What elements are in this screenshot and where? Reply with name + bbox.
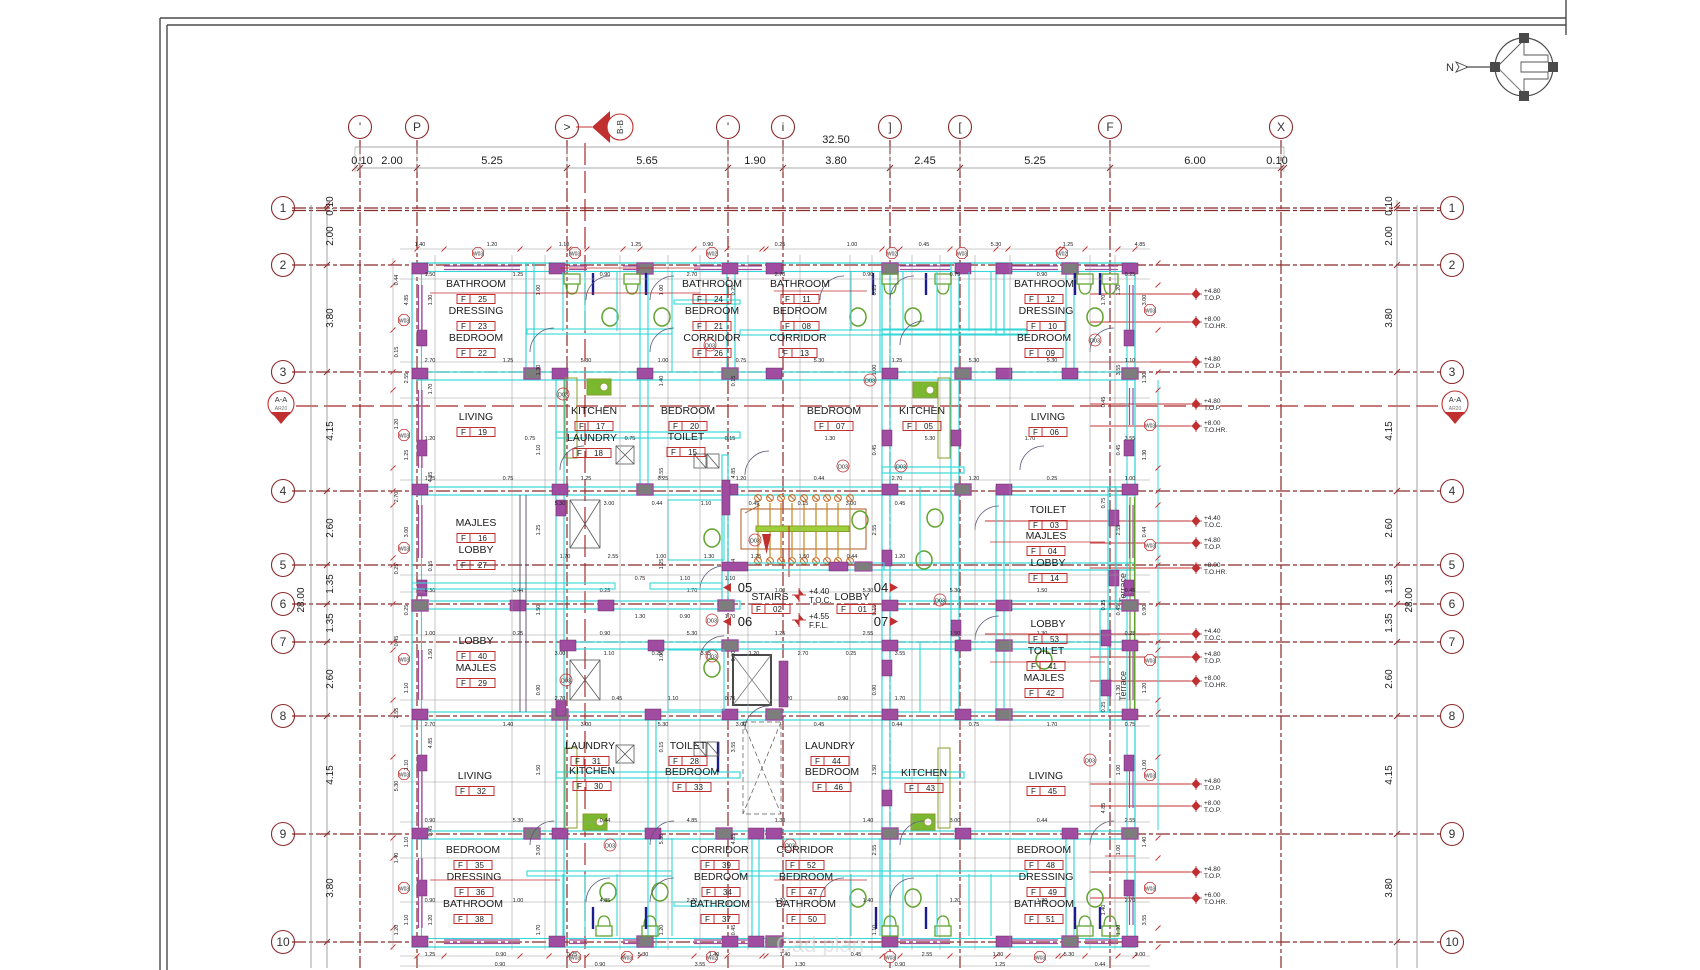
svg-text:0.90: 0.90 [600, 631, 611, 637]
svg-text:T.O.HR.: T.O.HR. [1204, 899, 1227, 906]
svg-text:1.30: 1.30 [536, 365, 542, 376]
svg-text:W03: W03 [399, 658, 410, 664]
svg-text:F: F [461, 349, 466, 358]
svg-text:1.25: 1.25 [581, 476, 592, 482]
svg-text:3: 3 [1449, 365, 1456, 379]
svg-text:0.75: 0.75 [1101, 498, 1107, 509]
svg-text:28.00: 28.00 [296, 587, 307, 612]
svg-text:2.70: 2.70 [1125, 898, 1136, 904]
svg-text:0.25: 0.25 [1047, 476, 1058, 482]
svg-text:F: F [1106, 120, 1113, 134]
svg-text:1.70: 1.70 [560, 554, 571, 560]
svg-text:T.O.P.: T.O.P. [1204, 295, 1221, 302]
svg-text:1.40: 1.40 [1101, 905, 1107, 916]
terrace right [1130, 497, 1135, 712]
svg-text:51: 51 [1046, 915, 1055, 924]
svg-text:28.00: 28.00 [1404, 587, 1415, 612]
svg-text:45: 45 [1048, 787, 1057, 796]
svg-text:+4.55: +4.55 [809, 612, 830, 621]
svg-text:F: F [461, 561, 466, 570]
svg-text:2: 2 [1449, 258, 1456, 272]
svg-text:4.85: 4.85 [1135, 242, 1146, 248]
svg-text:1.50: 1.50 [425, 272, 436, 278]
svg-text:]: ] [888, 120, 891, 134]
svg-text:2.55: 2.55 [659, 468, 665, 479]
svg-text:1.00: 1.00 [536, 285, 542, 296]
svg-text:06: 06 [738, 614, 752, 629]
svg-text:D03: D03 [865, 379, 875, 385]
svg-text:0.45: 0.45 [814, 722, 825, 728]
svg-text:22: 22 [478, 349, 487, 358]
svg-text:0.90: 0.90 [536, 685, 542, 696]
svg-text:2.55: 2.55 [872, 845, 878, 856]
svg-text:5.30: 5.30 [659, 834, 665, 845]
svg-text:1.40: 1.40 [709, 952, 720, 958]
svg-text:T.O.P.: T.O.P. [1204, 544, 1221, 551]
svg-text:2.70: 2.70 [892, 476, 903, 482]
svg-text:LOBBY: LOBBY [1030, 618, 1065, 630]
svg-text:D03: D03 [558, 393, 568, 399]
svg-text:34: 34 [723, 888, 732, 897]
svg-text:5.30: 5.30 [1064, 952, 1075, 958]
green fixtures: wall-hung WCs (top clusters) [564, 274, 580, 294]
svg-text:F: F [461, 428, 466, 437]
svg-text:1.40: 1.40 [659, 376, 665, 387]
svg-text:2.60: 2.60 [1384, 518, 1395, 538]
svg-text:2.55: 2.55 [922, 952, 933, 958]
svg-text:W03: W03 [399, 773, 410, 779]
svg-text:2.55: 2.55 [863, 631, 874, 637]
svg-text:F: F [815, 757, 820, 766]
svg-text:0.25: 0.25 [1101, 702, 1107, 713]
svg-text:AR20: AR20 [275, 406, 288, 412]
svg-text:T.O.HR.: T.O.HR. [1204, 427, 1227, 434]
svg-text:i: i [782, 120, 785, 134]
svg-text:48: 48 [1046, 861, 1055, 870]
svg-text:1.70: 1.70 [1047, 722, 1058, 728]
left dimension column [326, 200, 328, 968]
svg-text:3.00: 3.00 [581, 722, 592, 728]
svg-text:N: N [1446, 62, 1454, 74]
svg-text:+8.00: +8.00 [1204, 562, 1221, 569]
svg-text:5.30: 5.30 [969, 358, 980, 364]
svg-text:2.55: 2.55 [394, 708, 400, 719]
svg-text:D03: D03 [707, 619, 717, 625]
svg-text:7: 7 [280, 635, 287, 649]
svg-text:2.60: 2.60 [325, 518, 336, 538]
svg-text:15: 15 [688, 448, 697, 457]
svg-text:4.85: 4.85 [600, 898, 611, 904]
svg-text:0.90: 0.90 [595, 962, 606, 968]
svg-text:1.35: 1.35 [1384, 574, 1395, 594]
svg-text:0.75: 0.75 [736, 358, 747, 364]
svg-text:1.50: 1.50 [950, 631, 961, 637]
svg-text:F: F [790, 861, 795, 870]
svg-text:F: F [1031, 322, 1036, 331]
svg-text:BATHROOM: BATHROOM [690, 898, 750, 910]
svg-text:W03: W03 [399, 319, 410, 325]
svg-text:BEDROOM: BEDROOM [779, 871, 833, 883]
svg-text:0.90: 0.90 [425, 898, 436, 904]
svg-text:+8.00: +8.00 [1204, 675, 1221, 682]
svg-text:0.90: 0.90 [600, 272, 611, 278]
svg-text:F: F [705, 915, 710, 924]
svg-text:1.25: 1.25 [659, 559, 665, 570]
columns magenta [412, 263, 428, 274]
svg-text:F: F [697, 322, 702, 331]
central duct dashed X [743, 722, 781, 814]
svg-text:1.50: 1.50 [1037, 588, 1048, 594]
svg-text:3.00: 3.00 [536, 845, 542, 856]
wet area partitions cyan [527, 272, 1027, 936]
svg-text:1.40: 1.40 [503, 722, 514, 728]
svg-text:03: 03 [1050, 521, 1059, 530]
svg-text:F: F [461, 295, 466, 304]
svg-text:2.00: 2.00 [381, 155, 402, 167]
svg-text:2.00: 2.00 [325, 226, 336, 246]
svg-text:5.30: 5.30 [638, 952, 649, 958]
svg-text:1.30: 1.30 [1116, 925, 1122, 936]
svg-text:9: 9 [280, 827, 287, 841]
svg-text:3.80: 3.80 [325, 308, 336, 328]
svg-text:MAJLES: MAJLES [1026, 530, 1067, 542]
svg-text:1.50: 1.50 [536, 605, 542, 616]
svg-text:1.20: 1.20 [425, 436, 436, 442]
svg-text:0.25: 0.25 [775, 242, 786, 248]
svg-text:8: 8 [280, 709, 287, 723]
svg-text:6: 6 [1449, 597, 1456, 611]
svg-text:12: 12 [1046, 295, 1055, 304]
svg-text:1.10: 1.10 [680, 576, 691, 582]
svg-text:X: X [1277, 120, 1285, 134]
svg-text:F: F [791, 915, 796, 924]
svg-text:1.00: 1.00 [513, 898, 524, 904]
svg-text:2.60: 2.60 [1384, 669, 1395, 689]
svg-text:52: 52 [807, 861, 816, 870]
svg-text:+8.00: +8.00 [1204, 800, 1221, 807]
svg-text:3.55: 3.55 [1125, 436, 1136, 442]
corridor wall segment [722, 563, 884, 570]
svg-text:39: 39 [722, 861, 731, 870]
svg-text:W03: W03 [957, 252, 968, 258]
svg-text:0.45: 0.45 [612, 696, 623, 702]
svg-text:DRESSING: DRESSING [1019, 871, 1074, 883]
svg-text:1.30: 1.30 [1142, 373, 1148, 384]
svg-text:F: F [671, 448, 676, 457]
svg-text:49: 49 [1048, 888, 1057, 897]
svg-text:D03: D03 [707, 655, 717, 661]
svg-text:+8.00: +8.00 [1204, 316, 1221, 323]
svg-text:0.90: 0.90 [863, 272, 874, 278]
svg-text:1.10: 1.10 [668, 696, 679, 702]
svg-text:DRESSING: DRESSING [447, 871, 502, 883]
svg-text:0.25: 0.25 [567, 952, 578, 958]
svg-text:0.10: 0.10 [1266, 155, 1287, 167]
svg-text:0.45: 0.45 [749, 501, 760, 507]
svg-text:F: F [791, 888, 796, 897]
svg-text:2.55: 2.55 [1125, 818, 1136, 824]
svg-text:0.90: 0.90 [731, 651, 737, 662]
svg-text:1.25: 1.25 [513, 272, 524, 278]
svg-text:0.25: 0.25 [513, 631, 524, 637]
svg-text:1.25: 1.25 [425, 952, 436, 958]
svg-text:F: F [458, 861, 463, 870]
svg-text:0.15: 0.15 [798, 501, 809, 507]
svg-text:0.15: 0.15 [731, 376, 737, 387]
svg-text:1.30: 1.30 [1116, 685, 1122, 696]
svg-text:0.45: 0.45 [1125, 588, 1136, 594]
svg-text:4.85: 4.85 [428, 738, 434, 749]
svg-text:1.00: 1.00 [1125, 476, 1136, 482]
svg-text:0.90: 0.90 [838, 696, 849, 702]
svg-text:+4.80: +4.80 [1204, 537, 1221, 544]
svg-text:F: F [1029, 915, 1034, 924]
svg-text:3.00: 3.00 [1142, 295, 1148, 306]
svg-text:5.30: 5.30 [513, 818, 524, 824]
svg-text:3.00: 3.00 [1135, 952, 1146, 958]
svg-text:BATHROOM: BATHROOM [443, 898, 503, 910]
svg-text:5.30: 5.30 [925, 436, 936, 442]
svg-text:1.70: 1.70 [428, 384, 434, 395]
svg-text:3.00: 3.00 [736, 722, 747, 728]
svg-text:F.F.L.: F.F.L. [809, 621, 828, 630]
svg-text:1.20: 1.20 [895, 554, 906, 560]
svg-text:0.25: 0.25 [846, 651, 857, 657]
svg-text:F: F [1031, 888, 1036, 897]
svg-text:1.25: 1.25 [536, 525, 542, 536]
svg-text:CORRIDOR: CORRIDOR [691, 844, 749, 856]
svg-text:+4.80: +4.80 [1204, 778, 1221, 785]
svg-text:1.40: 1.40 [863, 898, 874, 904]
svg-text:BEDROOM: BEDROOM [446, 844, 500, 856]
svg-text:BEDROOM: BEDROOM [661, 405, 715, 417]
svg-text:1.00: 1.00 [1116, 765, 1122, 776]
svg-text:5.30: 5.30 [1047, 358, 1058, 364]
svg-text:BEDROOM: BEDROOM [805, 766, 859, 778]
svg-text:': ' [359, 120, 361, 134]
svg-text:Cad plan: Cad plan [776, 932, 864, 957]
building outer walls [412, 263, 1135, 947]
svg-text:24: 24 [714, 295, 723, 304]
svg-text:0.90: 0.90 [1142, 605, 1148, 616]
svg-text:F: F [1033, 428, 1038, 437]
door arcs [530, 276, 1114, 902]
svg-text:3.00: 3.00 [404, 527, 410, 538]
svg-text:30: 30 [594, 782, 603, 791]
svg-text:4.85: 4.85 [428, 472, 434, 483]
svg-text:0.44: 0.44 [814, 476, 825, 482]
svg-text:10: 10 [1048, 322, 1057, 331]
svg-text:BATHROOM: BATHROOM [446, 278, 506, 290]
windows side walls (magenta strips) [419, 285, 1134, 928]
svg-text:05: 05 [738, 580, 752, 595]
svg-text:T.O.P.: T.O.P. [1204, 405, 1221, 412]
svg-text:0.44: 0.44 [892, 722, 903, 728]
svg-text:BATHROOM: BATHROOM [1014, 898, 1074, 910]
svg-text:W03: W03 [1145, 309, 1156, 315]
svg-text:BEDROOM: BEDROOM [449, 332, 503, 344]
svg-text:3.55: 3.55 [731, 742, 737, 753]
svg-text:1.40: 1.40 [1142, 837, 1148, 848]
svg-text:3.80: 3.80 [1384, 308, 1395, 328]
north arrow [1456, 38, 1553, 96]
right dimension column [1396, 200, 1398, 968]
svg-text:F: F [697, 295, 702, 304]
svg-text:F: F [577, 782, 582, 791]
svg-text:LOBBY: LOBBY [834, 591, 869, 603]
svg-text:4.85: 4.85 [1101, 803, 1107, 814]
svg-text:F: F [1029, 295, 1034, 304]
svg-text:T.O.P.: T.O.P. [1204, 363, 1221, 370]
svg-text:TOILET: TOILET [1030, 504, 1067, 516]
stairs [741, 509, 866, 549]
svg-text:F: F [817, 783, 822, 792]
svg-text:0.75: 0.75 [525, 436, 536, 442]
svg-text:D03: D03 [605, 844, 615, 850]
svg-text:1.10: 1.10 [1125, 358, 1136, 364]
svg-text:W02: W02 [707, 252, 718, 258]
interior dim chains [400, 249, 1150, 966]
svg-text:1.50: 1.50 [536, 765, 542, 776]
svg-text:BATHROOM: BATHROOM [682, 278, 742, 290]
svg-text:1.35: 1.35 [325, 613, 336, 633]
svg-text:BEDROOM: BEDROOM [1017, 332, 1071, 344]
svg-text:1.30: 1.30 [428, 295, 434, 306]
top dimension lines [355, 146, 1284, 148]
svg-text:1.20: 1.20 [736, 476, 747, 482]
svg-text:4.85: 4.85 [731, 834, 737, 845]
svg-text:0.45: 0.45 [1101, 397, 1107, 408]
svg-text:0.45: 0.45 [895, 501, 906, 507]
kitchen counters green [583, 379, 937, 830]
svg-text:46: 46 [834, 783, 843, 792]
svg-text:LAUNDRY: LAUNDRY [805, 740, 855, 752]
svg-text:14: 14 [1050, 574, 1059, 583]
svg-text:F: F [756, 605, 761, 614]
svg-text:1.10: 1.10 [404, 837, 410, 848]
svg-text:1.20: 1.20 [1142, 683, 1148, 694]
svg-text:LOBBY: LOBBY [458, 544, 493, 556]
svg-text:40: 40 [478, 652, 487, 661]
svg-text:0.90: 0.90 [495, 962, 506, 968]
svg-text:1.20: 1.20 [394, 925, 400, 936]
svg-text:1: 1 [280, 201, 287, 215]
svg-text:TOILET: TOILET [1028, 645, 1065, 657]
svg-text:LIVING: LIVING [458, 770, 492, 782]
svg-text:F: F [785, 295, 790, 304]
svg-text:4.15: 4.15 [325, 421, 336, 441]
svg-text:F: F [785, 322, 790, 331]
svg-text:21: 21 [714, 322, 723, 331]
svg-text:05: 05 [924, 422, 933, 431]
svg-text:+4.80: +4.80 [1204, 398, 1221, 405]
svg-text:53: 53 [1050, 635, 1059, 644]
svg-text:0.75: 0.75 [625, 436, 636, 442]
svg-text:01: 01 [858, 605, 867, 614]
svg-text:1.25: 1.25 [503, 358, 514, 364]
svg-text:08: 08 [802, 322, 811, 331]
svg-text:1.30: 1.30 [775, 818, 786, 824]
svg-text:W03: W03 [1145, 659, 1156, 665]
svg-text:F: F [577, 449, 582, 458]
svg-text:>: > [563, 120, 570, 134]
svg-text:1.10: 1.10 [559, 242, 570, 248]
svg-text:1.40: 1.40 [394, 853, 400, 864]
svg-text:09: 09 [1046, 349, 1055, 358]
svg-text:41: 41 [1048, 662, 1057, 671]
svg-text:BATHROOM: BATHROOM [1014, 278, 1074, 290]
svg-text:F: F [1031, 787, 1036, 796]
svg-text:3.00: 3.00 [555, 651, 566, 657]
svg-text:F: F [458, 915, 463, 924]
internal walls cyan [417, 263, 1135, 947]
svg-text:2.55: 2.55 [404, 373, 410, 384]
svg-text:0.75: 0.75 [635, 576, 646, 582]
svg-text:TOILET: TOILET [668, 431, 705, 443]
svg-text:5.65: 5.65 [636, 155, 657, 167]
svg-text:1.90: 1.90 [744, 155, 765, 167]
svg-text:+8.00: +8.00 [1204, 420, 1221, 427]
svg-text:0.45: 0.45 [919, 242, 930, 248]
svg-text:16: 16 [478, 534, 487, 543]
svg-text:07: 07 [874, 614, 888, 629]
svg-text:BEDROOM: BEDROOM [665, 766, 719, 778]
svg-text:T.O.HR.: T.O.HR. [1204, 569, 1227, 576]
svg-text:20: 20 [690, 422, 699, 431]
elevator [733, 655, 771, 705]
svg-text:23: 23 [478, 322, 487, 331]
svg-text:02: 02 [773, 605, 782, 614]
svg-text:F: F [461, 534, 466, 543]
svg-text:9: 9 [1449, 827, 1456, 841]
svg-text:1.00: 1.00 [659, 285, 665, 296]
svg-text:W03: W03 [885, 956, 896, 962]
svg-text:1.10: 1.10 [604, 651, 615, 657]
svg-text:1.20: 1.20 [394, 419, 400, 430]
svg-text:25: 25 [478, 295, 487, 304]
svg-text:2.70: 2.70 [425, 722, 436, 728]
svg-text:50: 50 [808, 915, 817, 924]
svg-text:0.75: 0.75 [950, 272, 961, 278]
svg-text:1.00: 1.00 [659, 651, 665, 662]
svg-text:1.50: 1.50 [799, 554, 810, 560]
svg-text:T.O.C.: T.O.C. [809, 596, 832, 605]
svg-text:1.35: 1.35 [1384, 613, 1395, 633]
svg-text:0.15: 0.15 [428, 561, 434, 572]
railing double line west [520, 495, 526, 712]
svg-text:F: F [697, 349, 702, 358]
svg-text:2.70: 2.70 [555, 696, 566, 702]
svg-text:BATHROOM: BATHROOM [770, 278, 830, 290]
svg-text:5: 5 [1449, 558, 1456, 572]
svg-text:DRESSING: DRESSING [1019, 305, 1074, 317]
svg-text:0.90: 0.90 [703, 242, 714, 248]
svg-text:0.45: 0.45 [731, 925, 737, 936]
svg-text:0.45: 0.45 [428, 826, 434, 837]
svg-text:1.30: 1.30 [993, 952, 1004, 958]
svg-text:A-A: A-A [275, 395, 288, 404]
svg-text:2: 2 [280, 258, 287, 272]
svg-text:1.20: 1.20 [428, 915, 434, 926]
svg-text:0.44: 0.44 [652, 501, 663, 507]
svg-text:': ' [727, 120, 729, 134]
svg-text:LAUNDRY: LAUNDRY [565, 740, 615, 752]
svg-text:0.44: 0.44 [394, 275, 400, 286]
svg-text:1.00: 1.00 [425, 631, 436, 637]
svg-text:5.30: 5.30 [658, 722, 669, 728]
svg-text:+4.80: +4.80 [1204, 651, 1221, 658]
svg-text:W03: W03 [622, 956, 633, 962]
